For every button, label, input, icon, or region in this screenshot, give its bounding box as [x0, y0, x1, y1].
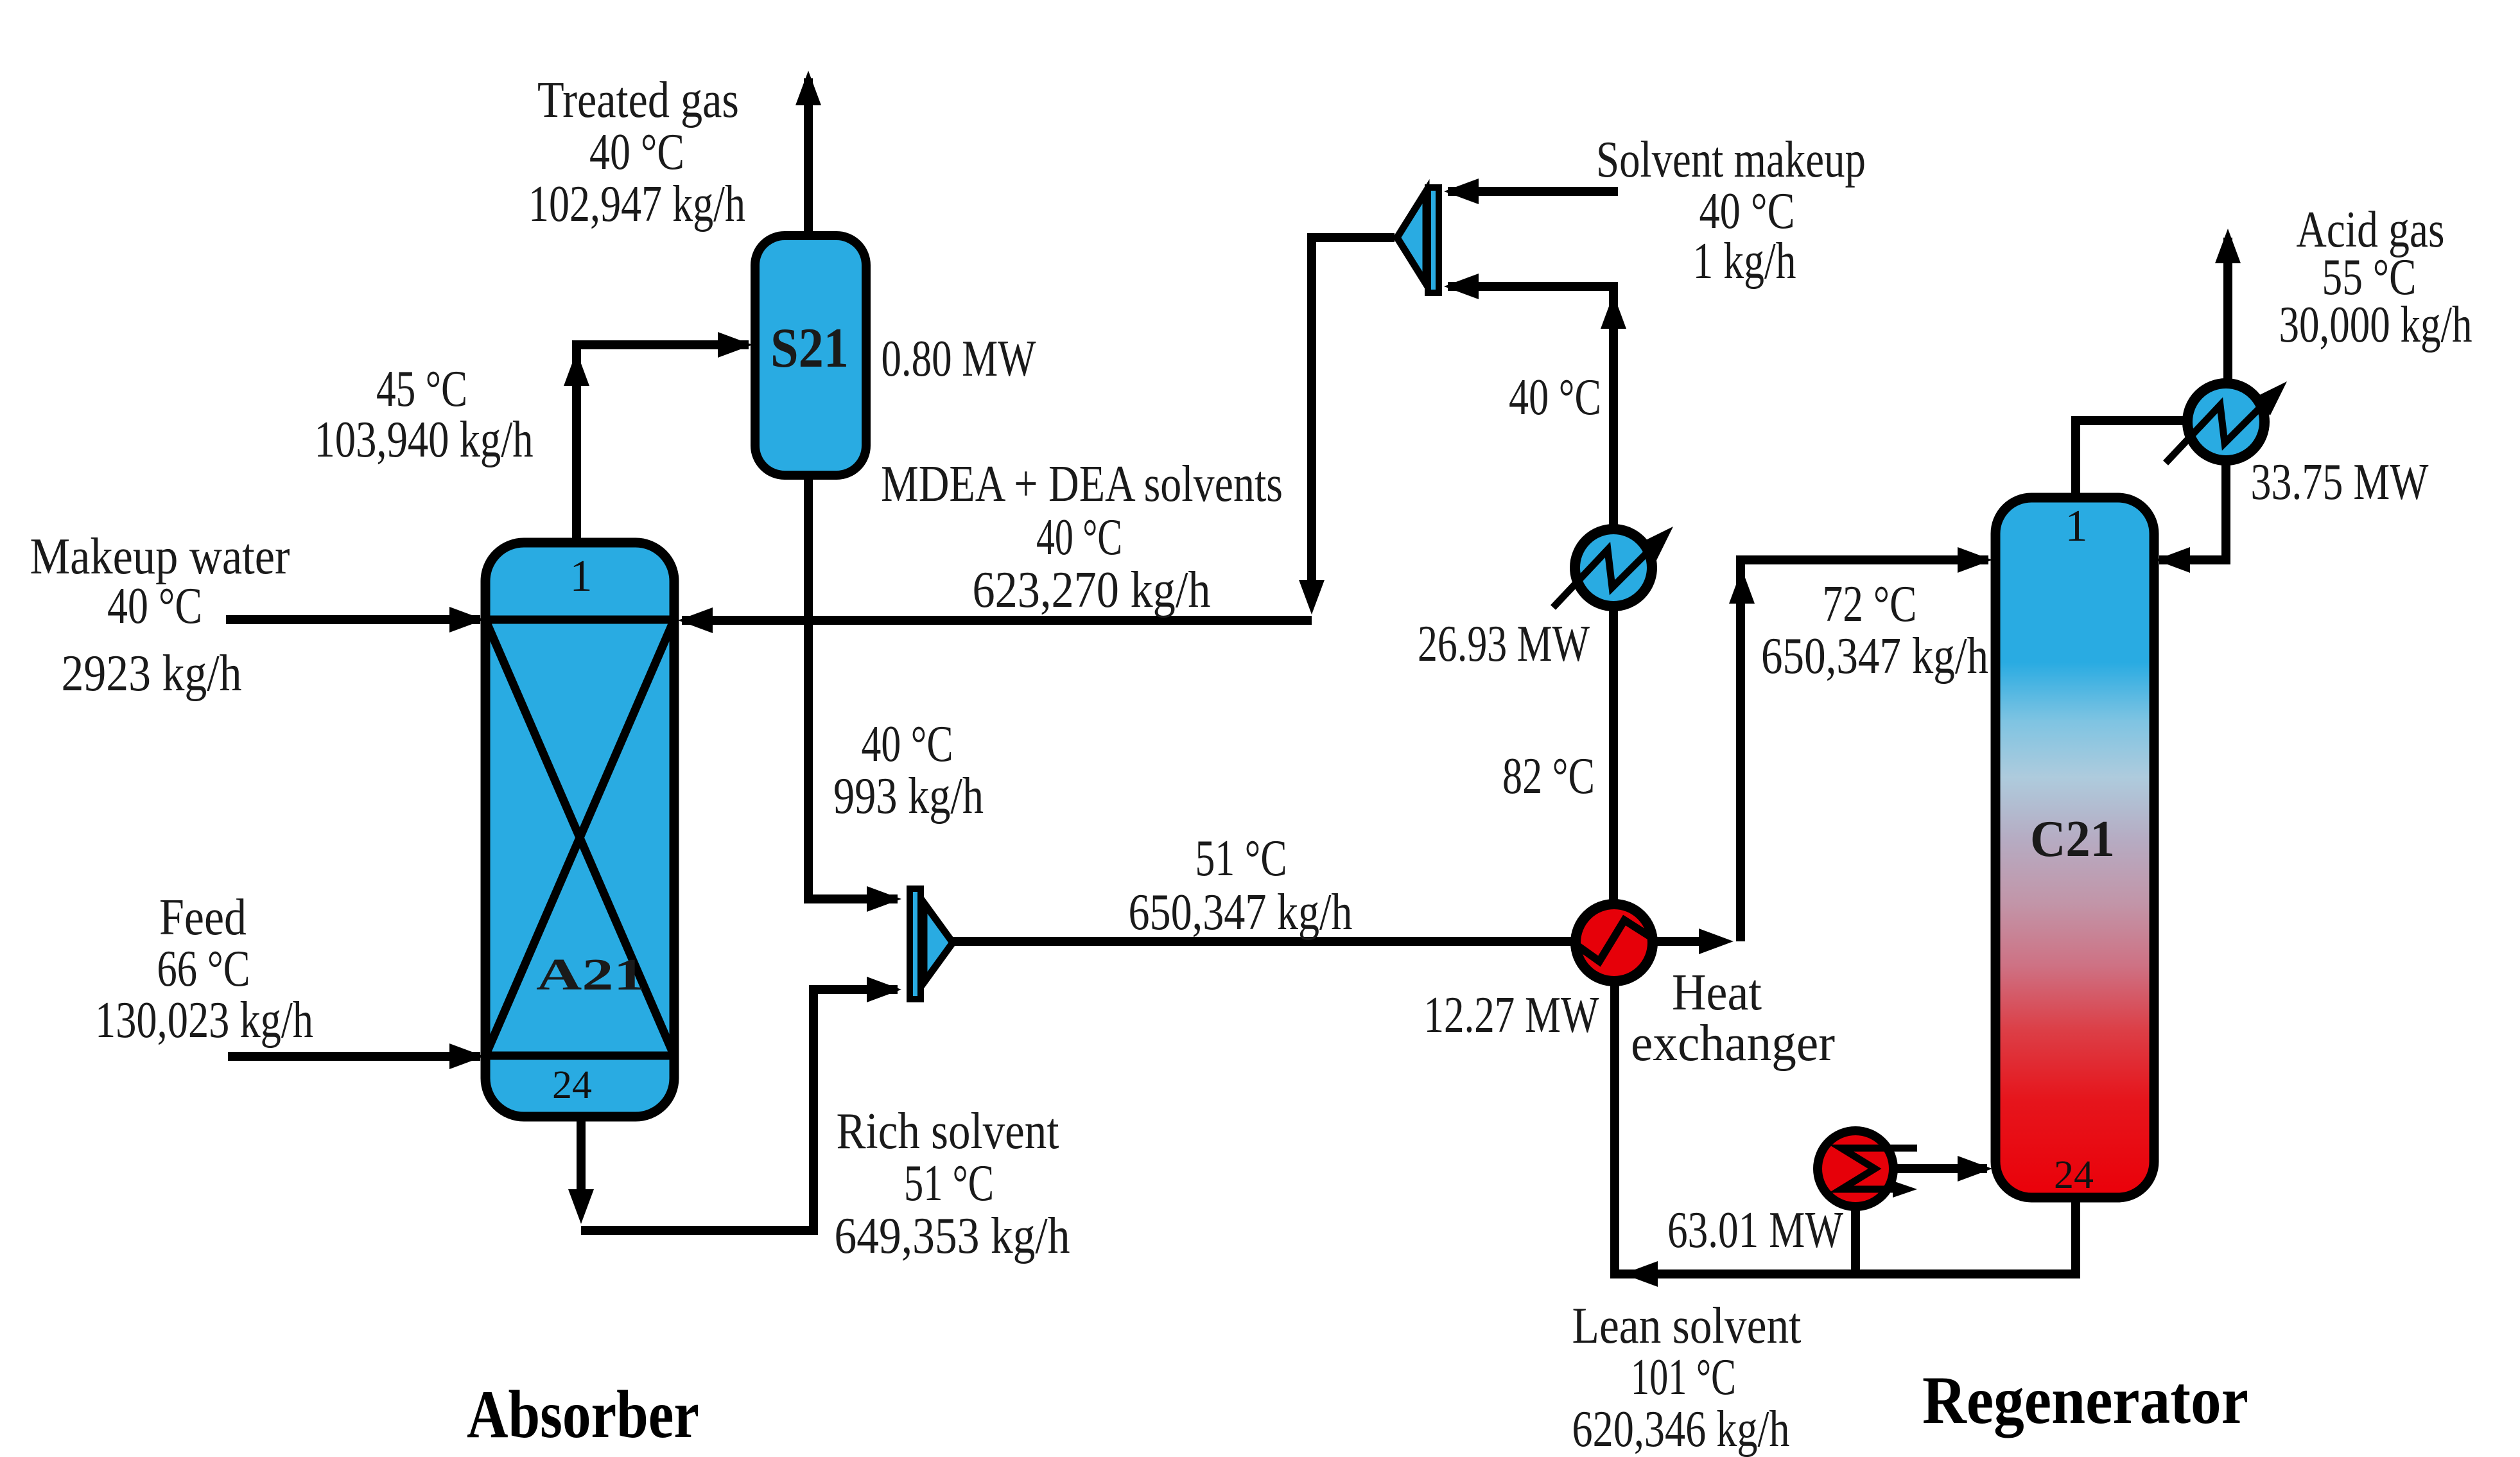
svg-text:MDEA + DEA solvents: MDEA + DEA solvents — [881, 456, 1283, 512]
cooler E1 26.93 MW circle — [1575, 529, 1652, 606]
wire: regenerator bottoms lean solvent return line — [1615, 981, 2076, 1274]
condenser E3 33.75 MW circle — [2187, 383, 2264, 460]
cooler E1 zigzag coil — [1553, 543, 1657, 607]
wire: lean solvent (MDEA+DEA) return into absorber — [682, 616, 1312, 625]
heat exchanger E2 zigzag coil — [1577, 920, 1653, 961]
wire: treated gas out of S21 top — [804, 78, 813, 238]
svg-text:102,947 kg/h: 102,947 kg/h — [528, 176, 745, 232]
reboiler E4 coil arrowhead — [1893, 1181, 1917, 1198]
wire: regenerator overhead to condenser — [2076, 421, 2189, 500]
svg-text:650,347 kg/h: 650,347 kg/h — [1761, 628, 1988, 685]
svg-text:S21: S21 — [770, 317, 849, 380]
svg-text:C21: C21 — [2030, 811, 2115, 868]
wire: absorber overhead vapour to S21 — [577, 345, 749, 545]
wire: pump outlet to heat exchanger (51 C stream) — [950, 937, 1581, 946]
svg-text:45 °C: 45 °C — [376, 361, 467, 417]
separator vessel S21 — [755, 236, 866, 475]
svg-text:40 °C: 40 °C — [589, 124, 684, 180]
svg-text:26.93 MW: 26.93 MW — [1418, 616, 1590, 672]
svg-text:649,353 kg/h: 649,353 kg/h — [835, 1208, 1070, 1264]
pump P1 bar — [910, 889, 921, 999]
heat exchanger E2 12.27 MW circle — [1576, 904, 1653, 981]
wire: reboiler vapour return into regenerator — [1890, 1164, 1987, 1173]
svg-text:Regenerator: Regenerator — [1922, 1363, 2248, 1438]
A21 top tray line — [485, 616, 674, 624]
pump P1 rich solvent pump triangle — [924, 903, 953, 982]
svg-text:Lean solvent: Lean solvent — [1572, 1298, 1802, 1354]
wire: S21 bottoms liquid to pump top inlet — [808, 474, 898, 899]
wire: lean solvent riser through exchangers (82 C / 40 C) — [1609, 606, 1618, 905]
svg-text:40 °C: 40 °C — [862, 716, 953, 772]
svg-text:1: 1 — [2065, 502, 2088, 551]
column C21 regenerator vessel — [1995, 498, 2154, 1198]
svg-text:40 °C: 40 °C — [107, 578, 202, 634]
svg-text:51 °C: 51 °C — [904, 1155, 994, 1212]
reboiler E4 sigma coil — [1841, 1148, 1917, 1189]
A21 packing cross diagonal 2 — [485, 620, 674, 1056]
svg-text:40 °C: 40 °C — [1036, 509, 1122, 566]
svg-text:623,270 kg/h: 623,270 kg/h — [973, 562, 1211, 618]
wire: rich solvent from absorber bottom to pump — [577, 1119, 586, 1189]
svg-text:1 kg/h: 1 kg/h — [1693, 233, 1796, 290]
svg-text:2923 kg/h: 2923 kg/h — [62, 645, 242, 702]
svg-text:66 °C: 66 °C — [157, 941, 250, 997]
svg-text:24: 24 — [552, 1063, 592, 1107]
condenser E3 utility arrowhead — [2253, 373, 2295, 415]
svg-text:Rich solvent: Rich solvent — [837, 1103, 1059, 1160]
svg-text:Absorber: Absorber — [467, 1377, 699, 1452]
svg-text:Treated gas: Treated gas — [537, 72, 739, 128]
reboiler E4 63.01 MW circle — [1818, 1131, 1893, 1207]
svg-text:650,347 kg/h: 650,347 kg/h — [1129, 884, 1353, 941]
svg-text:63.01 MW: 63.01 MW — [1667, 1202, 1843, 1259]
column A21 absorber vessel — [485, 543, 674, 1117]
svg-text:130,023 kg/h: 130,023 kg/h — [95, 992, 313, 1049]
wire: feed gas into absorber bottom — [228, 1052, 480, 1061]
svg-text:A21: A21 — [536, 950, 645, 1000]
wire: solvent makeup feed into mixer — [1448, 187, 1618, 196]
wire: condenser reflux back into regenerator — [2159, 459, 2226, 560]
svg-text:exchanger: exchanger — [1631, 1015, 1835, 1072]
svg-text:Feed: Feed — [159, 889, 247, 946]
svg-text:0.80 MW: 0.80 MW — [882, 331, 1036, 387]
A21 packing cross diagonal 1 — [485, 620, 674, 1056]
cooler E1 utility arrowhead — [1639, 518, 1681, 561]
svg-text:103,940 kg/h: 103,940 kg/h — [315, 412, 534, 468]
svg-text:1: 1 — [570, 552, 593, 601]
wire: mixer outlet down to solvent return header — [1312, 238, 1395, 581]
svg-text:620,346 kg/h: 620,346 kg/h — [1572, 1401, 1790, 1457]
wire: makeup water feed into absorber top — [226, 615, 480, 624]
svg-text:Makeup water: Makeup water — [30, 528, 290, 585]
svg-text:Heat: Heat — [1672, 964, 1762, 1021]
svg-text:Solvent makeup: Solvent makeup — [1596, 132, 1866, 188]
svg-text:72 °C: 72 °C — [1823, 576, 1917, 633]
svg-text:24: 24 — [2054, 1153, 2094, 1197]
A21 bottom tray line — [485, 1052, 674, 1060]
svg-text:12.27 MW: 12.27 MW — [1424, 987, 1599, 1043]
wire: heat exchanger outlet riser to regenerator (72 C) — [1649, 937, 1703, 946]
mixer pump bar — [1428, 188, 1439, 293]
condenser E3 zigzag coil — [2166, 398, 2270, 463]
svg-text:30,000 kg/h: 30,000 kg/h — [2279, 297, 2472, 353]
mixer pump (solvent makeup) triangle — [1397, 191, 1426, 284]
svg-text:33.75 MW: 33.75 MW — [2251, 454, 2429, 510]
svg-text:993 kg/h: 993 kg/h — [833, 768, 984, 824]
svg-text:51 °C: 51 °C — [1195, 830, 1287, 887]
wire: acid gas out of condenser — [2223, 238, 2232, 385]
wire: reboiler draw line — [1851, 1207, 1860, 1269]
svg-text:82 °C: 82 °C — [1502, 748, 1595, 805]
svg-text:40 °C: 40 °C — [1509, 369, 1601, 426]
svg-text:40 °C: 40 °C — [1699, 183, 1795, 240]
svg-text:101 °C: 101 °C — [1631, 1349, 1736, 1406]
